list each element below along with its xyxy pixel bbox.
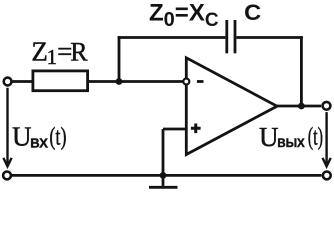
wire: non-inverting input horizontal bbox=[163, 128, 186, 131]
input voltage arrow (Uvx) bbox=[3, 88, 11, 167]
wire: feedback top horizontal to capacitor bbox=[118, 36, 226, 39]
wire: op-amp output to output terminal bbox=[277, 105, 321, 108]
ground bbox=[149, 175, 178, 187]
output terminal top-right bbox=[323, 102, 331, 110]
wire: resistor to op-amp inverting input bbox=[88, 80, 184, 83]
svg-text:UВЫХ(t): UВЫХ(t) bbox=[259, 122, 323, 152]
output voltage arrow (Uvyx) bbox=[323, 112, 331, 166]
node: feedback tap junction bbox=[116, 78, 123, 85]
capacitor C1 right plate bbox=[234, 20, 237, 53]
plus sign at non-inverting input bbox=[191, 124, 201, 134]
minus sign at inverting input bbox=[197, 80, 204, 83]
svg-text:Z1=R: Z1=R bbox=[31, 37, 88, 69]
node: output junction bbox=[298, 103, 305, 110]
op-amp inverting input bubble bbox=[183, 79, 189, 85]
input terminal top-left bbox=[4, 78, 12, 86]
svg-text:UВХ(t): UВХ(t) bbox=[12, 122, 67, 152]
wire: feedback down to output node bbox=[300, 36, 303, 106]
wire: capacitor to feedback right corner bbox=[236, 36, 302, 39]
svg-text:Z0=XC: Z0=XC bbox=[149, 0, 219, 31]
capacitor C1 left plate bbox=[225, 20, 228, 53]
node: bottom rail ground junction bbox=[160, 172, 167, 179]
svg-text:C: C bbox=[244, 0, 261, 25]
wire: input terminal to resistor bbox=[12, 80, 34, 83]
op-amp U1 bbox=[186, 58, 277, 155]
wire: non-inverting input down to bottom rail bbox=[162, 129, 165, 175]
output terminal bottom-right bbox=[323, 172, 331, 180]
wire: bottom rail bbox=[12, 174, 322, 177]
wire: junction up to feedback rail bbox=[118, 36, 121, 83]
input terminal bottom-left bbox=[3, 172, 11, 180]
resistor R1 (Z1=R) bbox=[33, 71, 88, 91]
